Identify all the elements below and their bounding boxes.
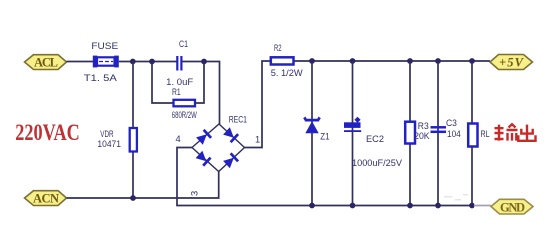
- svg-text:R3: R3: [418, 121, 429, 131]
- terminal +5V: [490, 55, 533, 70]
- junction R3 top: [407, 58, 413, 64]
- terminal GND: [491, 199, 533, 214]
- diode REC1 top-right: [223, 127, 238, 142]
- wire R1 branch right: [195, 62, 204, 104]
- svg-text:104: 104: [447, 129, 461, 139]
- svg-text:ACL: ACL: [34, 56, 58, 70]
- resistor R1: [174, 100, 196, 107]
- resistor R2: [271, 57, 294, 64]
- svg-text:1: 1: [255, 135, 260, 145]
- junction R1 right tap: [201, 59, 207, 65]
- wire C3 vertical: [437, 61, 439, 206]
- svg-text:RL: RL: [481, 129, 490, 139]
- svg-text:FUSE: FUSE: [91, 41, 118, 51]
- diode REC1 bottom-right: [223, 153, 238, 168]
- svg-text:C3: C3: [446, 118, 457, 128]
- wire bridge pin 4 to ground rail: [177, 148, 491, 206]
- wire bridge pin 1 up to R2: [245, 61, 271, 148]
- glyph shu (vehicle radical): [495, 125, 504, 141]
- glyph shu (right part): [507, 124, 518, 140]
- svg-text:EC2: EC2: [366, 134, 384, 144]
- junction VDR tap: [130, 59, 136, 65]
- wire ACN to bridge pin 3: [67, 172, 219, 199]
- wire fuse to C1 section: [119, 61, 178, 63]
- svg-text:1. 0uF: 1. 0uF: [166, 77, 193, 87]
- wire RL vertical: [471, 61, 473, 206]
- net label output (Chinese 输出): [495, 124, 536, 141]
- wire C1 to corner and down to bridge top: [182, 62, 220, 125]
- svg-text:Z1: Z1: [320, 132, 329, 142]
- wire VDR vertical: [132, 62, 134, 199]
- svg-text:+5V: +5V: [499, 56, 525, 70]
- junction VDR bottom: [130, 195, 136, 201]
- svg-text:C1: C1: [179, 39, 188, 49]
- watermark wash over ground rail near GND: [474, 201, 491, 210]
- svg-text:680R/2W: 680R/2W: [172, 110, 197, 120]
- terminal ACL: [25, 55, 67, 70]
- zener diode Z1: [304, 117, 319, 133]
- junction RL top: [469, 58, 475, 64]
- junction EC2 bottom: [350, 203, 356, 209]
- wire +5V rail: [294, 60, 491, 62]
- svg-text:GND: GND: [500, 201, 525, 215]
- wire EC2 vertical: [352, 61, 354, 206]
- junction EC2 top: [350, 58, 356, 64]
- svg-text:10471: 10471: [97, 139, 121, 149]
- resistor RL: [468, 124, 477, 147]
- junction R3 bottom: [407, 203, 413, 209]
- electrolytic capacitor EC2: [344, 117, 361, 132]
- wire Z1 vertical: [311, 61, 313, 206]
- svg-text:T1. 5A: T1. 5A: [84, 73, 118, 83]
- svg-text:1000uF/25V: 1000uF/25V: [352, 158, 403, 168]
- svg-text:VDR: VDR: [100, 129, 113, 139]
- svg-text:R1: R1: [172, 87, 181, 97]
- svg-text:20K: 20K: [414, 131, 430, 141]
- fuse FUSE: [93, 56, 119, 68]
- terminal ACN: [25, 191, 67, 206]
- diode REC1 bottom-left: [195, 150, 210, 165]
- capacitor C3: [431, 127, 447, 132]
- bridge rectifier REC1: [192, 124, 245, 172]
- junction C3 bottom: [435, 203, 441, 209]
- junction C3 top: [435, 58, 441, 64]
- resistor R3: [405, 122, 415, 144]
- svg-text:5. 1/2W: 5. 1/2W: [271, 68, 303, 78]
- svg-text:4: 4: [176, 134, 181, 144]
- svg-text:ACN: ACN: [33, 192, 59, 206]
- diode REC1 top-left: [196, 130, 211, 145]
- junction Z1 bottom: [309, 203, 315, 209]
- varistor VDR: [130, 128, 137, 152]
- svg-text:REC1: REC1: [229, 115, 247, 125]
- wire R3 vertical: [409, 61, 411, 206]
- svg-text:3: 3: [190, 191, 200, 196]
- watermark dashes: [444, 194, 468, 201]
- svg-text:220VAC: 220VAC: [15, 120, 80, 145]
- glyph chu: [518, 125, 535, 141]
- junction Z1 top: [309, 58, 315, 64]
- junction R1 left tap: [149, 59, 155, 65]
- wire R1 branch left: [152, 62, 173, 104]
- capacitor C1: [177, 56, 181, 71]
- svg-text:R2: R2: [274, 43, 282, 53]
- junction RL bottom: [469, 203, 475, 209]
- wire ACL to fuse: [67, 61, 94, 63]
